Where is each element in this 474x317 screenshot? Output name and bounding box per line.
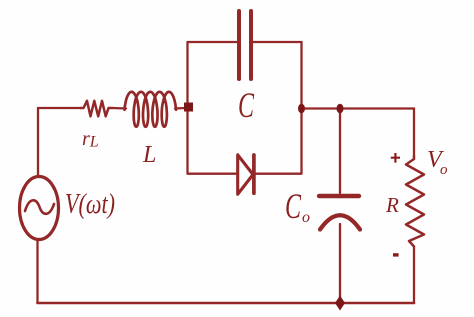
- diode D1 cathode bar: [252, 155, 256, 193]
- svg-text:L: L: [142, 142, 156, 168]
- junction square node at inductor output: [184, 103, 193, 112]
- ac source V(wt): [20, 177, 59, 240]
- wire top-right horizontal: [302, 107, 415, 109]
- svg-text:o: o: [302, 209, 310, 226]
- wire diode to right corner: [254, 111, 302, 174]
- svg-text:C: C: [285, 186, 302, 226]
- capacitor Co bottom plate arc: [320, 215, 360, 229]
- wire node up to C branch: [186, 42, 188, 104]
- sine wave inside source: [25, 200, 54, 214]
- svg-text:R: R: [385, 193, 399, 217]
- svg-text:o: o: [440, 162, 448, 178]
- wire down right side to resistor R: [413, 109, 415, 157]
- label minus: [393, 253, 399, 256]
- capacitor Co top plate: [319, 194, 359, 198]
- junction dot node A: [298, 104, 305, 114]
- capacitor C right plate: [249, 11, 253, 79]
- label plus: [391, 153, 400, 163]
- wire top-left horizontal: [38, 107, 81, 109]
- svg-text:C: C: [238, 85, 255, 125]
- wire down to node A: [300, 42, 302, 106]
- wire Co to bottom junction: [339, 224, 341, 303]
- junction dot node B: [337, 104, 344, 114]
- svg-text:rL: rL: [82, 128, 99, 151]
- inductor L: [125, 92, 177, 127]
- svg-text:V(ωt): V(ωt): [65, 188, 115, 220]
- wire C right plate to corner: [253, 41, 302, 43]
- wire resistor R to bottom: [413, 247, 415, 304]
- wire left vertical top: [37, 108, 39, 176]
- junction diamond bottom: [335, 296, 345, 311]
- bottom wire: [38, 302, 415, 305]
- wire bottom-left vertical: [36, 240, 38, 303]
- wire inductor to node: [175, 107, 185, 110]
- wire to C left plate: [188, 41, 238, 43]
- resistor R: [406, 156, 424, 247]
- capacitor C left plate: [237, 11, 241, 79]
- wire node down to diode branch: [188, 111, 237, 174]
- diode D1 triangle: [238, 155, 253, 195]
- wire node2 down to Co: [339, 109, 341, 194]
- resistor rL: [81, 101, 113, 117]
- wire to inductor: [112, 107, 126, 110]
